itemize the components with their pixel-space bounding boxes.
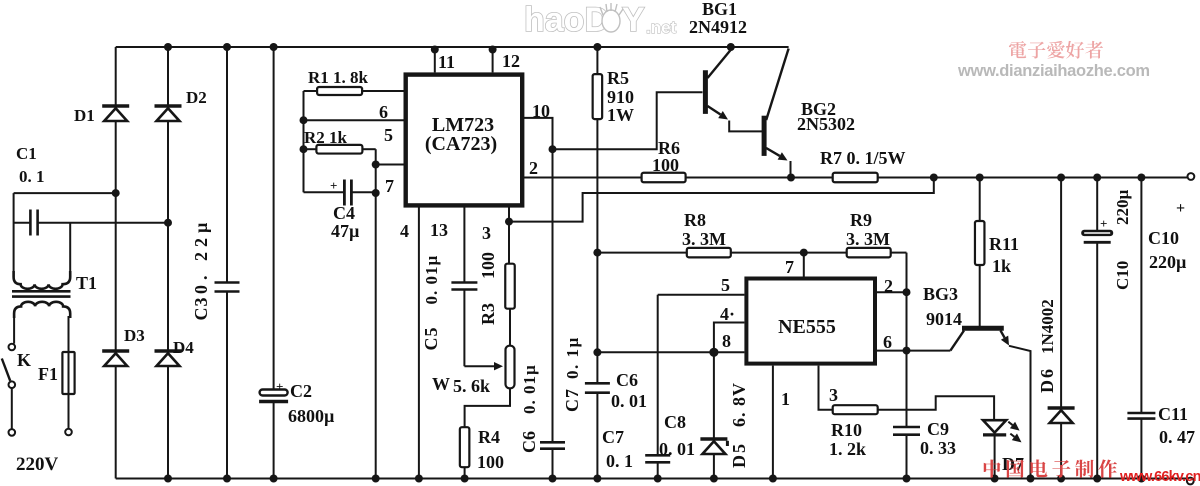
capacitor C9 <box>893 426 920 429</box>
svg-text:3. 3M: 3. 3M <box>846 229 890 249</box>
svg-text:1: 1 <box>781 389 790 409</box>
wire pin6 <box>304 119 405 121</box>
svg-text:1N4002: 1N4002 <box>1038 299 1057 354</box>
svg-text:R10: R10 <box>831 420 862 440</box>
svg-text:10: 10 <box>532 101 550 121</box>
junction pin5 node <box>372 161 380 169</box>
svg-text:C5: C5 <box>421 327 441 351</box>
svg-text:C7: C7 <box>562 388 582 412</box>
wire D2-D4 vertical <box>167 47 169 106</box>
svg-text:6. 8V: 6. 8V <box>729 382 749 427</box>
junction D1 line - secondary <box>112 189 120 197</box>
svg-text:0. 01µ: 0. 01µ <box>520 364 539 414</box>
svg-text:Y: Y <box>622 1 645 39</box>
transistor Q BG2 <box>762 116 767 156</box>
op-amp U1 LM723 box <box>406 75 523 206</box>
svg-text:13: 13 <box>430 220 448 240</box>
svg-text:1. 2k: 1. 2k <box>829 439 866 459</box>
junction output-D6 <box>1057 174 1065 182</box>
junction bus-pin7 line <box>372 475 380 483</box>
wire pin2 output row <box>523 177 641 179</box>
junction D5 node <box>709 348 718 357</box>
svg-text:R3: R3 <box>478 303 498 325</box>
svg-text:C10: C10 <box>1113 261 1132 290</box>
junction bus-D6 <box>1057 475 1065 483</box>
svg-text:6: 6 <box>379 102 388 122</box>
wire R5 vertical <box>596 47 598 74</box>
wire pin7 down <box>803 253 805 277</box>
svg-text:R7 0. 1/5W: R7 0. 1/5W <box>820 148 906 168</box>
wire C2 vertical <box>273 47 275 390</box>
svg-text:+: + <box>276 379 283 394</box>
svg-text:0. 22µ: 0. 22µ <box>191 218 211 294</box>
svg-text:D5: D5 <box>729 442 749 468</box>
svg-text:1W: 1W <box>607 105 634 125</box>
svg-text:1k: 1k <box>992 256 1011 276</box>
wire ground bus <box>116 478 1187 480</box>
resistor R6 <box>642 173 686 183</box>
svg-text:+: + <box>1100 216 1107 231</box>
junction D2 line - C1 line <box>164 219 172 227</box>
wire 555 pin2 <box>877 291 907 293</box>
capacitor C2 electrolytic <box>260 390 288 396</box>
wire T1 right upper lead <box>69 223 71 277</box>
svg-text:D6: D6 <box>1037 367 1057 393</box>
svg-text:7: 7 <box>385 176 394 196</box>
wire 555 pin6 <box>877 350 950 352</box>
resistor R9 <box>847 248 891 258</box>
svg-text:C3: C3 <box>191 297 211 321</box>
terminal output minus <box>1187 478 1194 485</box>
junction rail-R2 <box>300 145 308 153</box>
wire secondary lower lead with C1 <box>14 222 30 224</box>
svg-text:D1: D1 <box>74 106 95 125</box>
junction R8 row - R5 line <box>593 249 601 257</box>
resistor R2 <box>304 148 317 150</box>
wire T1 right lower lead <box>68 316 70 352</box>
svg-text:3. 3M: 3. 3M <box>682 229 726 249</box>
terminal output plus <box>1188 173 1195 180</box>
svg-text:0. 1: 0. 1 <box>606 451 633 471</box>
junction bus-pin11 <box>431 46 439 54</box>
svg-text:0. 01: 0. 01 <box>611 391 647 411</box>
junction pin6 node <box>903 347 911 355</box>
svg-text:R9: R9 <box>850 210 872 230</box>
wire pot bottom to R4 <box>465 388 510 427</box>
svg-text:C9: C9 <box>927 419 949 439</box>
junction bus-pin1 <box>769 475 777 483</box>
svg-text:C2: C2 <box>290 381 312 401</box>
junction bus-pin4 <box>415 475 423 483</box>
svg-text:K: K <box>17 350 31 370</box>
wire 555 pin1 <box>772 366 774 479</box>
wire left vertical to transformer <box>13 193 15 277</box>
svg-text:R8: R8 <box>684 210 706 230</box>
svg-text:3: 3 <box>829 385 838 405</box>
junction bus-BG3 emitter <box>1027 475 1035 483</box>
svg-text:2N5302: 2N5302 <box>797 114 855 134</box>
junction output-C10 <box>1093 174 1101 182</box>
resistor R8 <box>687 248 731 258</box>
svg-text:3: 3 <box>482 223 491 243</box>
svg-text:6: 6 <box>883 332 892 352</box>
junction bus-D5 <box>710 475 718 483</box>
wire C6 vertical <box>552 149 554 442</box>
resistor R11 <box>979 178 981 221</box>
svg-text:C10: C10 <box>1148 228 1179 248</box>
svg-text:BG3: BG3 <box>923 284 958 304</box>
svg-text:0. 01: 0. 01 <box>659 439 695 459</box>
switch K <box>9 344 16 351</box>
junction BG2 emitter node <box>787 174 795 182</box>
svg-text:47µ: 47µ <box>331 221 360 241</box>
wire top supply bus <box>116 46 789 48</box>
resistor R3 <box>505 264 515 309</box>
junction bus-pin12 <box>489 46 497 54</box>
wire D7 to bus <box>994 436 996 479</box>
wire T1 left lower lead <box>13 316 15 344</box>
wire secondary upper lead <box>14 192 116 194</box>
svg-text:5. 6k: 5. 6k <box>453 376 490 396</box>
capacitor C11 <box>1140 178 1142 414</box>
zener D5 <box>713 352 715 439</box>
wire pin10 jog <box>523 118 552 149</box>
svg-text:D2: D2 <box>186 88 207 107</box>
svg-text:2: 2 <box>884 276 893 296</box>
capacitor C5 <box>451 281 477 284</box>
junction pin3 node <box>505 218 513 226</box>
junction bus-D2 <box>164 43 172 51</box>
svg-text:12: 12 <box>502 51 520 71</box>
svg-text:C4: C4 <box>333 203 355 223</box>
junction bus-R5 <box>593 43 601 51</box>
wire R4 to bus <box>464 467 466 478</box>
fuse F1 <box>68 352 70 429</box>
wire R10 to D7 <box>878 396 994 419</box>
svg-text:R1 1. 8k: R1 1. 8k <box>308 68 369 87</box>
svg-text:+: + <box>330 178 337 193</box>
junction bus-C9 <box>903 475 911 483</box>
svg-text:.net: .net <box>646 18 677 37</box>
wire R8-R9 row <box>597 252 686 254</box>
capacitor C6 <box>540 441 565 444</box>
diode D4 <box>155 349 182 353</box>
junction pin10 node <box>549 145 557 153</box>
resistor R5 <box>593 74 603 119</box>
diode D3 <box>102 349 129 353</box>
svg-text:C6: C6 <box>616 370 638 390</box>
wire C3 vertical <box>226 47 228 283</box>
svg-text:(CA723): (CA723) <box>425 133 497 155</box>
svg-text:D3: D3 <box>124 326 145 345</box>
svg-text:2: 2 <box>529 158 538 178</box>
svg-text:100: 100 <box>652 155 679 175</box>
svg-text:0. 01µ: 0. 01µ <box>422 255 441 305</box>
watermark dianziaihaozhe red <box>1009 41 1027 58</box>
svg-text:C11: C11 <box>1158 404 1188 424</box>
svg-text:R11: R11 <box>989 234 1019 254</box>
svg-text:2N4912: 2N4912 <box>689 17 747 37</box>
svg-text:R4: R4 <box>478 427 500 447</box>
junction pin2 node <box>903 288 911 296</box>
junction bus-C2 bottom <box>270 475 278 483</box>
wire R3 to potentiometer <box>509 309 511 346</box>
diode D6 <box>1060 178 1062 409</box>
wire pin7 vertical to ground bus <box>375 165 377 479</box>
wire 555 pin3 <box>819 366 833 410</box>
svg-text:9014: 9014 <box>926 309 962 329</box>
svg-text:910: 910 <box>607 87 634 107</box>
svg-text:C8: C8 <box>664 412 686 432</box>
wire C9 vertical <box>906 292 908 427</box>
junction output-C11 <box>1137 174 1145 182</box>
wire D1-D3 vertical <box>115 47 117 106</box>
svg-text:0. 1: 0. 1 <box>19 167 45 186</box>
led D7 <box>983 420 1006 432</box>
svg-text:0. 47: 0. 47 <box>1159 427 1195 447</box>
svg-text:C7: C7 <box>602 427 624 447</box>
wire C8 vertical <box>657 295 659 456</box>
svg-text:T1: T1 <box>76 273 97 293</box>
junction bus-C7 <box>593 475 601 483</box>
svg-text:100: 100 <box>478 252 498 279</box>
wire pin5 <box>376 164 405 166</box>
junction output-R11 <box>976 174 984 182</box>
junction bus-D7 <box>991 475 999 483</box>
wire pin4 vertical <box>418 207 420 479</box>
svg-text:220µ: 220µ <box>1113 190 1132 226</box>
resistor R1 <box>304 90 318 92</box>
capacitor C3 <box>215 281 240 284</box>
svg-text:D4: D4 <box>173 338 194 357</box>
svg-text:R5: R5 <box>607 68 629 88</box>
junction bus-C6 <box>549 475 557 483</box>
capacitor C7 <box>585 382 610 385</box>
junction bus-C3 bottom <box>223 475 231 483</box>
svg-text:7: 7 <box>785 257 794 277</box>
junction bus-C10 <box>1093 475 1101 483</box>
diode D2 <box>155 104 182 108</box>
junction bus-C3 <box>223 43 231 51</box>
svg-text:haoD: haoD <box>524 1 609 39</box>
svg-text:C1: C1 <box>16 144 37 163</box>
wire pin5 route <box>658 294 745 296</box>
svg-text:0. 33: 0. 33 <box>920 438 956 458</box>
svg-text:8: 8 <box>722 331 731 351</box>
capacitor C8 <box>645 454 670 457</box>
svg-text:W: W <box>432 374 450 394</box>
svg-text:R2 1k: R2 1k <box>304 128 348 147</box>
svg-text:220V: 220V <box>16 454 59 475</box>
wire left reference rail <box>303 91 305 192</box>
capacitor C1 <box>29 210 32 236</box>
svg-text:11: 11 <box>438 52 455 72</box>
transistor Q BG3 <box>962 326 1004 331</box>
resistor R4 <box>460 427 470 467</box>
junction rail-pin6 <box>300 116 308 124</box>
svg-text:5: 5 <box>384 125 393 145</box>
junction output-feedback <box>930 174 938 182</box>
svg-text:F1: F1 <box>38 364 58 384</box>
svg-text:NE555: NE555 <box>778 316 836 338</box>
wire pin12 <box>492 47 494 72</box>
svg-text:www.dianziaihaozhe.com: www.dianziaihaozhe.com <box>957 62 1150 80</box>
svg-text:6800µ: 6800µ <box>288 406 335 426</box>
capacitor C4 <box>304 191 345 193</box>
junction bus-C2 <box>270 43 278 51</box>
svg-text:+: + <box>1176 200 1185 217</box>
transformer T1 <box>14 271 71 289</box>
junction pin7 node <box>372 189 380 197</box>
svg-text:www.66kv.cn: www.66kv.cn <box>1119 469 1200 485</box>
potentiometer W 5.6k <box>506 346 515 389</box>
wire pin10 to BG1 base <box>553 92 703 149</box>
watermark 66kv chinese <box>984 459 1001 477</box>
junction pin7 row <box>800 249 808 257</box>
junction bus-C8 <box>654 475 662 483</box>
junction bus-R4 <box>461 475 469 483</box>
svg-text:220µ: 220µ <box>1149 252 1187 272</box>
wire BG2 emitter lead <box>790 161 792 178</box>
capacitor C10 electrolytic <box>1096 178 1098 231</box>
wire control rail pins 4-8 <box>597 351 744 353</box>
wire pin13 vertical <box>463 207 465 283</box>
svg-text:0. 1µ: 0. 1µ <box>563 336 582 379</box>
transistor Q BG1 <box>703 70 708 114</box>
junction bus-D4 <box>164 475 172 483</box>
wire pin4 route <box>714 323 745 353</box>
diode D1 <box>102 104 129 108</box>
resistor R10 <box>833 405 878 414</box>
svg-text:C6: C6 <box>519 431 539 453</box>
svg-text:4: 4 <box>400 221 409 241</box>
timer U2 NE555 box <box>746 279 875 364</box>
wire pin3 vertical <box>508 207 510 264</box>
svg-text:100: 100 <box>477 452 504 472</box>
svg-text:5: 5 <box>721 275 730 295</box>
junction bus-BG1 collector <box>727 43 735 51</box>
wire pin11 <box>434 47 436 72</box>
wire pin3 to feedback jog <box>509 178 934 222</box>
resistor R7 <box>833 173 878 183</box>
svg-text:4·: 4· <box>720 304 735 324</box>
wire BG1 emitter to BG2 base <box>729 121 762 132</box>
junction bus-C11 <box>1137 475 1145 483</box>
junction ctrl rail - R5 line <box>593 348 601 356</box>
